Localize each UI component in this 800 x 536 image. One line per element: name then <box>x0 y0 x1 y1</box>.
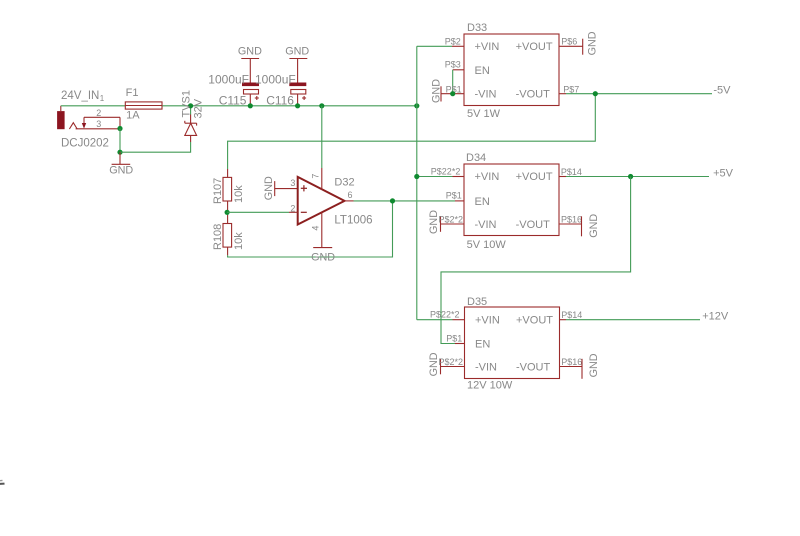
resistor R107 <box>223 169 232 210</box>
D35 pin -VIN stub with ground <box>441 359 465 374</box>
D33 pin EN stub <box>453 69 464 71</box>
svg-text:GND: GND <box>285 46 309 58</box>
wire -VOUT to -5V label <box>566 93 712 95</box>
node: output junction <box>390 198 395 203</box>
svg-text:-VOUT: -VOUT <box>516 219 551 231</box>
ground symbol GND at op-amp +IN <box>275 181 298 196</box>
svg-text:GND: GND <box>263 176 275 200</box>
D35 pin EN stub <box>455 343 465 345</box>
node: bus end / +VIN feed junction <box>414 103 419 108</box>
wire +VOUT to +5V label <box>566 176 709 178</box>
svg-text:2: 2 <box>96 108 101 118</box>
D34 pin +VIN stub <box>453 176 465 178</box>
svg-text:12V 10W: 12V 10W <box>467 380 513 392</box>
svg-text:32V: 32V <box>193 98 205 118</box>
svg-text:+VIN: +VIN <box>475 171 500 183</box>
svg-text:P$1: P$1 <box>446 334 462 344</box>
svg-text:D35: D35 <box>467 296 487 308</box>
module D34 box <box>464 164 559 236</box>
node: jack pin3 junction <box>117 126 122 131</box>
ground symbol GND at D33 +VOUT <box>582 39 584 55</box>
svg-text:D32: D32 <box>334 177 354 189</box>
wire +24V vertical feed <box>416 46 418 319</box>
svg-text:F1: F1 <box>126 87 139 99</box>
svg-text:EN: EN <box>475 196 490 208</box>
wire jack to ground branch <box>119 129 121 153</box>
ground symbol GND at connector <box>112 152 131 164</box>
wire +5V to D35 EN <box>441 177 631 344</box>
svg-text:P$14: P$14 <box>561 167 582 177</box>
wire 24V from connector to fuse <box>61 105 126 107</box>
D33 pin +VIN stub <box>452 45 464 47</box>
wire ground return to TVS anode <box>120 142 191 152</box>
wire divider midpoint <box>227 210 229 215</box>
ground symbol GND at op-amp pin4 <box>313 247 332 249</box>
wire -5V feedback line <box>228 94 596 169</box>
svg-text:+VIN: +VIN <box>475 314 500 326</box>
diode TVS1 (zener to ground) <box>185 106 197 142</box>
svg-text:C116: C116 <box>266 94 294 108</box>
svg-text:-5V: -5V <box>713 85 731 97</box>
svg-text:P$16: P$16 <box>561 215 582 225</box>
svg-text:P$2*2: P$2*2 <box>439 357 464 367</box>
node: D34 +VIN junction <box>414 174 419 179</box>
wire +24V to D34 +VIN <box>417 176 453 178</box>
svg-text:3: 3 <box>96 119 101 129</box>
D35 pin -VOUT stub to ground <box>560 366 583 368</box>
node: C116 on bus <box>295 103 300 108</box>
node: R107/R108 junction <box>225 210 230 215</box>
svg-text:-VIN: -VIN <box>475 219 497 231</box>
svg-text:D33: D33 <box>467 22 487 34</box>
svg-text:+VIN: +VIN <box>475 41 500 53</box>
svg-text:7: 7 <box>311 174 321 179</box>
ground symbol GND above C115 <box>241 59 259 83</box>
svg-text:DCJ0202: DCJ0202 <box>61 138 109 150</box>
svg-text:6: 6 <box>348 190 353 200</box>
svg-text:R108: R108 <box>212 224 224 250</box>
svg-text:TVS1: TVS1 <box>181 90 193 118</box>
wire D33 EN to GND <box>452 70 454 94</box>
D35 pin +VIN stub <box>453 319 465 321</box>
ground symbol GND at D33 -VIN <box>441 86 464 101</box>
module D33 box <box>464 34 559 106</box>
svg-text:+12V: +12V <box>702 311 729 323</box>
svg-text:P$6: P$6 <box>561 36 577 46</box>
wire op-amp output <box>354 200 456 202</box>
svg-text:+VOUT: +VOUT <box>516 41 553 53</box>
ground symbol GND above C116 <box>289 59 307 83</box>
resistor R108 <box>223 215 232 255</box>
svg-text:LT1006: LT1006 <box>334 215 372 227</box>
svg-text:GND: GND <box>588 214 600 238</box>
svg-text:R107: R107 <box>212 178 224 204</box>
connector X1 DCJ0202 body <box>57 106 120 129</box>
svg-text:P$22*2: P$22*2 <box>430 310 460 320</box>
svg-text:GND: GND <box>588 353 600 377</box>
svg-text:GND: GND <box>311 252 335 264</box>
ground symbol GND at D34 -VOUT <box>581 216 583 236</box>
node: C115 on bus <box>248 103 253 108</box>
node: D33 EN/-VIN/GND junction <box>450 91 455 96</box>
svg-text:1000uF: 1000uF <box>255 72 296 86</box>
node: +5V junction <box>628 174 633 179</box>
wire divider tap to op-amp -IN <box>227 211 289 213</box>
svg-text:1A: 1A <box>126 110 140 122</box>
svg-text:5V 10W: 5V 10W <box>467 239 507 251</box>
D34 pin +VOUT stub <box>559 176 566 178</box>
fuse F1 <box>125 102 162 109</box>
svg-text:EN: EN <box>475 338 490 350</box>
svg-text:-VOUT: -VOUT <box>516 89 551 101</box>
svg-text:+VOUT: +VOUT <box>516 171 553 183</box>
svg-text:5V 1W: 5V 1W <box>467 108 501 120</box>
module D35 box <box>465 307 560 379</box>
wire fuse to TVS node <box>162 105 190 107</box>
wire +24V to D35 +VIN <box>417 319 453 321</box>
svg-text:P$14: P$14 <box>561 310 582 320</box>
svg-text:10k: 10k <box>233 185 245 203</box>
D33 pin -VOUT stub <box>559 93 566 95</box>
svg-text:1: 1 <box>100 94 105 103</box>
wire +VOUT to +12V label <box>566 319 700 321</box>
svg-text:C115: C115 <box>219 94 247 108</box>
wire +24V to D33 +VIN <box>417 45 452 47</box>
svg-text:P$16: P$16 <box>561 357 582 367</box>
svg-text:4: 4 <box>311 226 321 231</box>
svg-text:-VIN: -VIN <box>475 89 497 101</box>
svg-text:+VOUT: +VOUT <box>516 314 553 326</box>
wire bus to op-amp V+ pin7 <box>321 106 323 168</box>
svg-text:GND: GND <box>238 46 262 58</box>
svg-text:GND: GND <box>587 31 599 55</box>
svg-text:-VOUT: -VOUT <box>516 361 551 373</box>
svg-text:1000uF: 1000uF <box>208 72 249 86</box>
svg-text:P$1: P$1 <box>446 190 462 200</box>
main 24V bus wire <box>191 105 417 107</box>
svg-text:P$2: P$2 <box>445 36 461 46</box>
svg-text:24V_IN: 24V_IN <box>61 90 99 102</box>
svg-text:2: 2 <box>290 203 295 213</box>
svg-text:P$3: P$3 <box>445 60 461 70</box>
D34 pin -VOUT stub to ground <box>559 223 582 225</box>
svg-text:P$7: P$7 <box>563 85 579 95</box>
svg-text:3: 3 <box>290 178 295 188</box>
svg-text:+5V: +5V <box>713 167 734 179</box>
svg-text:GND: GND <box>109 165 133 177</box>
D33 pin +VOUT stub to ground <box>559 45 583 47</box>
svg-text:EN: EN <box>475 65 490 77</box>
svg-text:D34: D34 <box>466 152 486 164</box>
svg-text:P$2*2: P$2*2 <box>439 215 464 225</box>
wire feedback from output to R108 bottom <box>228 201 393 257</box>
op-amp D32 triangle <box>289 168 354 248</box>
svg-text:-VIN: -VIN <box>475 361 497 373</box>
D34 pin EN stub <box>455 200 464 202</box>
D34 pin -VIN stub with ground <box>441 217 465 232</box>
ground symbol GND at D35 -VOUT <box>581 359 583 379</box>
node: ground branch junction <box>117 150 122 155</box>
D35 pin +VOUT stub <box>560 319 567 321</box>
capacitor C115 (polarized) <box>242 83 259 105</box>
capacitor C116 (polarized) <box>289 83 306 105</box>
svg-text:GND: GND <box>431 79 443 103</box>
stray screenshot artifact at left edge <box>0 480 5 484</box>
node: pin7 drop on bus <box>319 103 324 108</box>
svg-text:10k: 10k <box>233 232 245 250</box>
svg-text:P$22*2: P$22*2 <box>431 167 461 177</box>
node: TVS top on bus <box>188 103 193 108</box>
node: -5V junction <box>593 91 598 96</box>
